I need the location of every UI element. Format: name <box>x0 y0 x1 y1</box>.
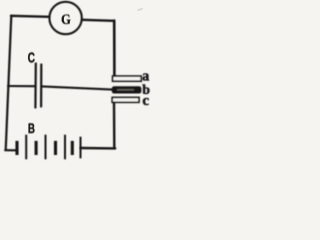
svg-text:C: C <box>28 48 35 66</box>
plate c (outlined bar) <box>112 97 139 102</box>
svg-text:a: a <box>142 68 150 84</box>
capacitor C right plate <box>40 65 42 107</box>
wire right vertical lower <box>113 103 116 149</box>
wire capacitor to plate b <box>42 86 112 89</box>
wire top-left horizontal <box>11 15 50 18</box>
battery B cell 1 long thin electrode <box>25 135 27 160</box>
svg-text:B: B <box>28 121 35 137</box>
wire bottom right <box>81 147 115 150</box>
wire right of G <box>82 20 114 21</box>
battery B cell 4 long thin electrode <box>80 137 82 159</box>
wire bottom left stub <box>5 149 16 151</box>
plate b (dark filled bar) <box>112 87 140 93</box>
faint smudge top right <box>137 8 144 12</box>
svg-text:G: G <box>61 11 71 27</box>
galvanometer G circle <box>49 2 81 34</box>
battery B cell 1 short thick electrode <box>15 141 18 155</box>
battery B cell 4 short thick electrode <box>71 141 74 155</box>
battery B cell 2 short thick electrode <box>35 141 38 155</box>
battery B cell 2 long thin electrode <box>45 135 47 160</box>
plate a (outlined bar) <box>113 76 142 81</box>
wire left vertical <box>6 16 12 150</box>
battery B cell 3 short thick electrode <box>54 141 57 155</box>
svg-text:c: c <box>142 93 149 109</box>
wire left to capacitor <box>8 85 35 87</box>
capacitor C left plate <box>34 64 37 108</box>
wire right vertical upper <box>113 21 116 77</box>
paper background <box>0 0 151 163</box>
battery B cell 3 long thin electrode <box>64 135 66 160</box>
